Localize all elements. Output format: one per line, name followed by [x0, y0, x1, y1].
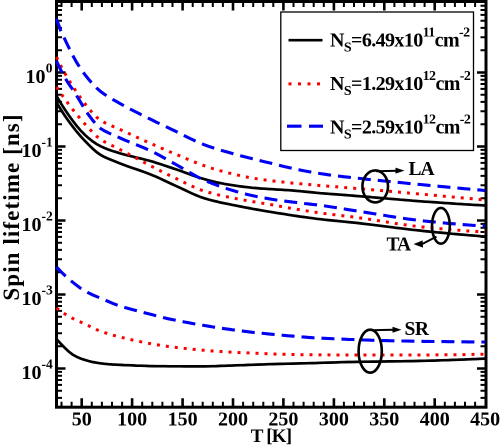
svg-text:-1: -1	[42, 134, 53, 149]
LA arrow	[376, 170, 398, 173]
axis frame	[57, 2, 487, 408]
y tick labels	[22, 60, 53, 384]
curve TA blue dashed	[57, 61, 486, 226]
curve LA blue dashed	[57, 19, 486, 191]
curve TA black solid	[57, 103, 486, 237]
svg-text:10: 10	[22, 288, 42, 310]
TA arrow	[422, 237, 437, 245]
svg-text:LA: LA	[409, 159, 435, 180]
svg-text:0: 0	[46, 60, 53, 75]
svg-text:450: 450	[470, 409, 500, 431]
svg-text:NS=1.29x1012cm-2: NS=1.29x1012cm-2	[330, 69, 471, 99]
curve LA black solid	[57, 96, 486, 206]
svg-text:150: 150	[168, 409, 198, 431]
curve SR blue dashed	[57, 267, 486, 342]
curve LA red dotted	[57, 57, 486, 200]
legend solid black sample	[289, 39, 323, 42]
svg-text:200: 200	[218, 409, 248, 431]
svg-text:350: 350	[369, 409, 399, 431]
curve SR red dotted	[57, 308, 486, 355]
curve TA red dotted	[57, 87, 486, 232]
SR ellipse	[359, 330, 382, 373]
svg-text:Spin lifetime [ns]: Spin lifetime [ns]	[0, 113, 24, 300]
svg-text:SR: SR	[405, 319, 430, 340]
svg-text:400: 400	[420, 409, 450, 431]
svg-text:10: 10	[22, 140, 42, 162]
svg-text:-3: -3	[42, 282, 53, 297]
svg-text:T [K]: T [K]	[251, 426, 292, 446]
legend box	[281, 12, 474, 151]
x tick labels	[72, 409, 500, 431]
svg-text:TA: TA	[387, 234, 412, 255]
SR arrow	[373, 329, 395, 331]
svg-text:NS=6.49x1011cm-2: NS=6.49x1011cm-2	[330, 25, 470, 55]
svg-text:-2: -2	[42, 208, 53, 223]
svg-text:10: 10	[26, 66, 46, 88]
legend red dotted sample	[289, 82, 322, 85]
svg-text:10: 10	[22, 362, 42, 384]
curve SR black solid	[57, 339, 486, 366]
svg-text:50: 50	[72, 409, 92, 431]
legend blue dashed sample	[287, 125, 323, 128]
svg-text:100: 100	[117, 409, 147, 431]
svg-text:10: 10	[22, 214, 42, 236]
svg-text:-4: -4	[42, 356, 53, 371]
svg-text:NS=2.59x1012cm-2: NS=2.59x1012cm-2	[330, 112, 471, 142]
LA ellipse	[362, 170, 388, 202]
svg-text:300: 300	[319, 409, 349, 431]
TA ellipse	[432, 208, 450, 244]
axis ticks	[58, 3, 486, 407]
